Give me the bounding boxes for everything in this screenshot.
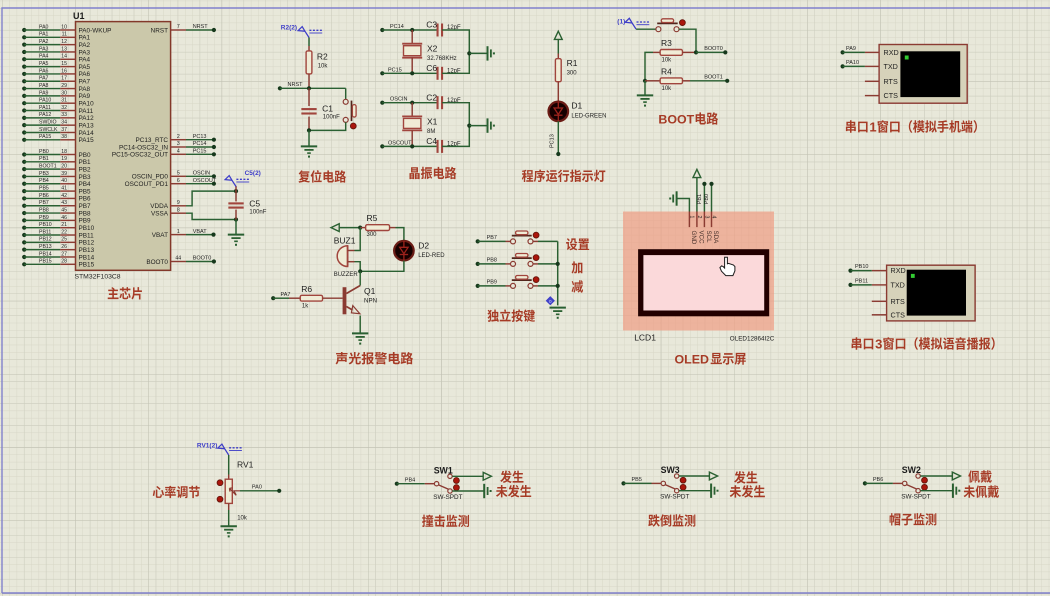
wire net NRST from U1 pin 7 (151, 24, 216, 34)
svg-text:BOOT0: BOOT0 (193, 256, 212, 262)
oled screen (638, 249, 769, 316)
wire probe to RV1 (228, 455, 230, 475)
ground SW1 rotated (483, 484, 485, 498)
potentiometer adjust dot down (217, 496, 223, 502)
buzzer BUZ1 (334, 236, 359, 279)
wire net SWCLK to U1 pin 37 (22, 127, 94, 137)
node junction collector (358, 269, 362, 273)
arrow SW2 top (952, 472, 960, 480)
wire net PA7 to U1 pin 17 (22, 76, 90, 86)
push button red indicator PB8 (533, 255, 539, 261)
svg-text:11: 11 (62, 32, 67, 38)
svg-text:PB6: PB6 (39, 193, 49, 199)
svg-text:RXD: RXD (891, 266, 906, 275)
svg-text:SW-SPDT: SW-SPDT (901, 494, 930, 501)
svg-text:7: 7 (177, 24, 180, 30)
wire net PB11 to terminal3 TXD (848, 279, 871, 288)
svg-text:PB15: PB15 (39, 259, 52, 265)
capacitor C3 12pF (426, 20, 461, 37)
wire oled GND to ground (677, 199, 690, 212)
svg-text:PC13_RTC: PC13_RTC (135, 137, 168, 144)
wire net PA11 to U1 pin 32 (22, 105, 94, 115)
svg-text:PB2: PB2 (79, 166, 92, 173)
svg-text:PB11: PB11 (79, 232, 95, 239)
svg-text:PA0-WKUP: PA0-WKUP (79, 27, 112, 34)
svg-text:43: 43 (61, 200, 67, 206)
svg-text:46: 46 (61, 215, 67, 221)
svg-text:14: 14 (61, 54, 67, 60)
svg-text:PB4: PB4 (79, 181, 92, 188)
svg-text:28: 28 (61, 259, 67, 265)
svg-text:RTS: RTS (891, 297, 905, 306)
switch SW3 SW-SPDT (652, 465, 690, 501)
node junction buzzer top (358, 226, 362, 230)
wire SW3 bottom throw (679, 490, 711, 492)
wire net PB6 (863, 477, 893, 485)
svg-text:31: 31 (61, 98, 67, 104)
svg-text:OSCOUT: OSCOUT (193, 178, 217, 184)
svg-text:0: 0 (549, 299, 552, 304)
svg-text:VBAT: VBAT (193, 229, 208, 235)
svg-text:10: 10 (61, 24, 67, 30)
svg-text:PB8: PB8 (39, 207, 49, 213)
svg-text:X1: X1 (427, 116, 438, 126)
potentiometer RV1 10k (225, 460, 253, 522)
svg-text:C5(2): C5(2) (245, 170, 261, 177)
wire net PB7 to U1 pin 43 (22, 200, 91, 210)
node junction C5 bottom (234, 217, 238, 221)
svg-text:PA6: PA6 (79, 71, 91, 78)
wire net PB1 oled SCL (697, 182, 707, 212)
svg-text:PA7: PA7 (281, 292, 291, 298)
svg-text:PB12: PB12 (39, 237, 52, 243)
svg-text:PA11: PA11 (79, 108, 94, 115)
svg-text:44: 44 (175, 256, 181, 262)
capacitor C1 100nF (301, 88, 340, 130)
ground keys (550, 307, 566, 309)
svg-text:SW-SPDT: SW-SPDT (660, 494, 689, 501)
svg-text:21: 21 (61, 222, 67, 228)
wire D2 to collector rail (360, 261, 404, 272)
switch SW3 red dot A (680, 477, 686, 483)
label 撞击监测 (422, 515, 433, 527)
switch SW1 red dot B (454, 485, 460, 491)
svg-text:PB7: PB7 (39, 200, 49, 206)
svg-text:BUZZER: BUZZER (334, 272, 359, 278)
node junction OSCIN-crystal (410, 101, 414, 105)
svg-text:PA10: PA10 (846, 60, 859, 66)
transistor Q1 NPN (343, 286, 377, 315)
push button key PB8 (506, 254, 558, 267)
wire net PA0 to U1 pin 10 (22, 24, 111, 34)
svg-text:TXD: TXD (891, 281, 905, 290)
svg-text:1: 1 (177, 229, 180, 235)
wire net PB9 to U1 pin 46 (22, 215, 91, 225)
svg-text:PA14: PA14 (79, 130, 95, 137)
svg-text:27: 27 (61, 251, 67, 257)
node junction right rail (467, 124, 471, 128)
svg-text:39: 39 (61, 171, 67, 177)
svg-text:SW1: SW1 (434, 465, 453, 475)
svg-text:5: 5 (177, 171, 180, 177)
node junction NRST-R2-C1 (307, 86, 311, 90)
svg-text:PA12: PA12 (79, 115, 95, 122)
ground SW3 rotated (710, 484, 712, 498)
wire net PB7 (476, 235, 506, 244)
svg-text:RV1: RV1 (237, 460, 254, 470)
svg-text:34: 34 (61, 120, 67, 126)
svg-text:300: 300 (567, 71, 578, 77)
wire net PB8 (476, 257, 506, 266)
ground SW2 rotated (952, 484, 954, 498)
push button red indicator (350, 123, 356, 129)
svg-text:VCC: VCC (698, 231, 705, 245)
label reset circuit (298, 170, 309, 182)
power arrow above R1 (554, 31, 562, 39)
wire C1 to ground (308, 130, 310, 146)
ground oled rotated (676, 191, 678, 205)
svg-text:38: 38 (61, 134, 67, 140)
svg-text:PA3: PA3 (79, 49, 91, 56)
svg-text:20: 20 (61, 164, 67, 170)
svg-text:PA7: PA7 (79, 79, 91, 86)
oled pin 3 SCL (704, 212, 712, 244)
wire SW2 top throw (920, 475, 952, 477)
svg-text:PA8: PA8 (39, 83, 49, 89)
svg-text:8M: 8M (427, 129, 435, 135)
svg-text:PA3: PA3 (39, 46, 49, 52)
push button red indicator PB9 (533, 277, 539, 283)
resistor R4 10k (645, 67, 690, 92)
svg-text:10k: 10k (318, 64, 329, 70)
svg-text:PB10: PB10 (79, 225, 95, 232)
svg-text:C1: C1 (322, 104, 333, 114)
virtual terminal 1 body (879, 45, 967, 104)
svg-text:D2: D2 (418, 241, 429, 251)
svg-text:TXD: TXD (884, 62, 898, 71)
wire R3 left to R4 rail (645, 52, 653, 80)
wire net PA15 to U1 pin 38 (22, 134, 94, 144)
wire net PB6 to U1 pin 42 (22, 193, 91, 203)
svg-text:17: 17 (61, 76, 67, 82)
svg-text:45: 45 (61, 207, 67, 213)
svg-text:SWDIO: SWDIO (39, 120, 57, 126)
crystal X1 8M (402, 103, 437, 147)
wire buzzer top to junction (355, 228, 361, 251)
wire net PB9 (476, 279, 506, 288)
wire net SWDIO to U1 pin 34 (22, 120, 94, 130)
oled LCD1 body (623, 212, 774, 331)
svg-text:PB3: PB3 (79, 174, 92, 181)
svg-text:SWCLK: SWCLK (39, 127, 58, 133)
label 发生 (500, 470, 512, 483)
wire net PA1 to U1 pin 11 (22, 32, 90, 42)
svg-text:2: 2 (696, 216, 702, 219)
svg-text:13: 13 (61, 46, 67, 52)
svg-text:BOOT0: BOOT0 (704, 46, 723, 52)
wire net PC13 from U1 pin 2 (135, 134, 216, 144)
wire net PA10 to U1 pin 31 (22, 98, 94, 108)
svg-text:R6: R6 (301, 284, 312, 294)
svg-text:PA0: PA0 (252, 484, 262, 490)
svg-text:1: 1 (869, 120, 876, 135)
resistor R6 1k (289, 284, 343, 310)
wire net VBAT from U1 pin 1 (152, 229, 216, 239)
svg-text:(1): (1) (617, 19, 625, 26)
svg-text:PC15: PC15 (193, 149, 207, 155)
voltage probe R2(2) (298, 27, 309, 38)
svg-text:C3: C3 (426, 20, 437, 30)
svg-text:8: 8 (177, 207, 180, 213)
svg-text:PA10: PA10 (79, 101, 95, 108)
voltage probe RV1(2) (218, 444, 229, 455)
svg-text:PC15-OSC32_OUT: PC15-OSC32_OUT (112, 152, 168, 159)
svg-text:PA2: PA2 (39, 39, 49, 45)
wire net PB5 (621, 477, 651, 485)
svg-text:OSCIN: OSCIN (193, 171, 210, 177)
svg-text:PC14: PC14 (193, 141, 207, 147)
ground BOOT circuit (637, 94, 653, 96)
label 未发生 (730, 485, 741, 497)
svg-text:4: 4 (177, 149, 180, 155)
svg-text:100nF: 100nF (249, 210, 266, 216)
node junction key bus PB9 (556, 284, 560, 288)
wire net PB10 to terminal3 RXD (848, 264, 871, 273)
wire net PB4 to U1 pin 40 (22, 178, 91, 188)
svg-text:10k: 10k (662, 58, 673, 64)
label 发生 (734, 471, 746, 484)
svg-text:VDDA: VDDA (150, 203, 168, 210)
svg-text:C4: C4 (426, 136, 437, 146)
svg-text:C5: C5 (249, 199, 260, 209)
arrow SW3 top (709, 472, 717, 480)
label 跌倒监测 (648, 514, 660, 526)
potentiometer adjust dot up (217, 480, 223, 486)
svg-text:RXD: RXD (884, 48, 899, 57)
svg-text:BOOT: BOOT (658, 113, 694, 127)
wire RV1 to ground (228, 510, 230, 526)
svg-text:PA5: PA5 (79, 64, 91, 71)
potentiometer wiper arrow (229, 488, 240, 495)
svg-text:PB9: PB9 (39, 215, 49, 221)
wire net PC13 below D1 (550, 121, 561, 156)
switch SW1 SW-SPDT (425, 465, 463, 501)
wire net PB10 to U1 pin 21 (22, 222, 94, 232)
svg-text:PA9: PA9 (39, 90, 49, 96)
label OLED display (675, 353, 746, 367)
svg-text:2: 2 (177, 134, 180, 140)
wire net PA2 to U1 pin 12 (22, 39, 90, 49)
wire key bus (557, 241, 559, 305)
wire net PB12 to U1 pin 25 (22, 237, 94, 247)
svg-text:37: 37 (61, 127, 67, 133)
svg-text:PB0: PB0 (79, 152, 92, 159)
svg-text:PA7: PA7 (39, 76, 49, 82)
label BOOT circuit (658, 112, 718, 126)
label main chip (108, 287, 119, 299)
svg-text:3: 3 (177, 141, 180, 147)
ground RV1 (221, 525, 237, 527)
crystal X2 32.768KHz (402, 30, 456, 73)
push button red indicator PB7 (533, 232, 539, 238)
wire net BOOT0 from U1 pin 44 (146, 256, 216, 266)
svg-text:PB4: PB4 (405, 478, 415, 484)
svg-text:OSCOUT: OSCOUT (388, 140, 412, 146)
wire net PA10 to terminal1 TXD (841, 60, 865, 69)
svg-text:6: 6 (177, 178, 180, 184)
mouse cursor on oled (720, 257, 735, 275)
svg-text:BOOT0: BOOT0 (146, 259, 168, 266)
wire emitter to ground (359, 316, 361, 334)
svg-text:100nF: 100nF (323, 115, 340, 121)
wire net PA9 to U1 pin 30 (22, 90, 90, 100)
voltage probe (1) (625, 18, 636, 29)
wire power to R1 (557, 39, 559, 53)
svg-text:PB10: PB10 (855, 264, 868, 270)
wire net PA8 to U1 pin 29 (22, 83, 90, 93)
wire net PB13 to U1 pin 26 (22, 244, 94, 254)
svg-text:OSCIN_PD0: OSCIN_PD0 (132, 174, 169, 181)
svg-text:SW2: SW2 (902, 465, 921, 475)
wire net PA7 (271, 292, 290, 301)
wire R5 to D2 (396, 228, 404, 241)
label 未发生 (496, 485, 507, 497)
svg-text:PB10: PB10 (39, 222, 52, 228)
svg-text:PB11: PB11 (855, 279, 868, 285)
push button key PB7 (506, 231, 558, 244)
svg-text:42: 42 (61, 193, 67, 199)
svg-text:41: 41 (61, 186, 67, 192)
power arrow buzzer rail (331, 224, 339, 232)
wire SW1 top throw (452, 475, 483, 477)
svg-text:NPN: NPN (364, 297, 377, 304)
node junction key bus PB8 (556, 262, 560, 266)
svg-text:Q1: Q1 (364, 286, 376, 296)
svg-text:PA6: PA6 (39, 68, 49, 74)
wire VSSA U1 pin 8 to C5 (151, 207, 236, 219)
wire net PB5 to U1 pin 41 (22, 186, 91, 196)
svg-text:GND: GND (690, 231, 697, 245)
wire SW1 bottom throw (452, 490, 484, 492)
svg-text:PB6: PB6 (873, 477, 883, 483)
svg-text:1: 1 (689, 216, 695, 219)
label serial port 3 (852, 337, 995, 352)
node junction OSCOUT-crystal (410, 144, 414, 148)
svg-text:PB5: PB5 (632, 477, 642, 483)
switch SW2 SW-SPDT (893, 465, 931, 501)
label set plus minus (566, 238, 577, 250)
svg-text:SCL: SCL (705, 231, 712, 244)
svg-text:300: 300 (367, 232, 378, 238)
label serial port 1 (846, 120, 977, 135)
wire net OSCIN from U1 pin 5 (132, 171, 216, 181)
svg-text:OLED: OLED (675, 353, 709, 367)
wire C6 to right rail (442, 53, 469, 73)
oled pin 4 SDA (711, 212, 719, 245)
svg-text:PB1: PB1 (79, 159, 92, 166)
svg-text:PA1: PA1 (39, 32, 49, 38)
capacitor C2 12pF (426, 92, 461, 109)
wire net PB3 to U1 pin 39 (22, 171, 91, 181)
svg-text:VSSA: VSSA (151, 211, 169, 218)
probe diamond keys (546, 297, 554, 305)
svg-text:C2: C2 (426, 92, 437, 102)
svg-text:1k: 1k (302, 304, 309, 310)
svg-text:PB7: PB7 (487, 235, 497, 241)
svg-text:PB5: PB5 (39, 186, 49, 192)
wire net OSCOUT from U1 pin 6 (125, 178, 217, 188)
svg-text:PA12: PA12 (39, 112, 51, 118)
resistor R2 10k (306, 46, 328, 88)
capacitor C4 12pF (426, 136, 461, 153)
svg-text:LCD1: LCD1 (634, 333, 656, 343)
svg-text:BUZ1: BUZ1 (334, 236, 356, 246)
svg-text:STM32F103C8: STM32F103C8 (75, 273, 121, 280)
svg-text:3: 3 (875, 337, 882, 352)
svg-text:CTS: CTS (891, 310, 906, 319)
ground emitter (352, 332, 368, 334)
svg-text:16: 16 (61, 68, 67, 74)
wire net PA12 to U1 pin 33 (22, 112, 94, 122)
svg-text:32: 32 (61, 105, 67, 111)
wire button to BOOT0 rail (679, 29, 696, 52)
ground below C1 (301, 145, 317, 147)
ground rotated (487, 46, 489, 60)
wire rail to ground (469, 125, 487, 127)
svg-text:29: 29 (61, 83, 67, 89)
svg-text:19: 19 (61, 156, 67, 162)
label crystal circuit (409, 167, 419, 179)
svg-text:18: 18 (61, 149, 67, 155)
ground below C5 (228, 234, 244, 236)
wire net PC15 (380, 67, 437, 75)
svg-text:PB9: PB9 (79, 218, 92, 225)
power arrow oled (693, 169, 701, 177)
svg-text:R2(2): R2(2) (281, 25, 297, 32)
svg-text:PC13: PC13 (193, 134, 207, 140)
arrow SW1 top (483, 472, 491, 480)
svg-text:LED-GREEN: LED-GREEN (571, 114, 606, 120)
node junction PC15-crystal (410, 71, 414, 75)
svg-text:PC14: PC14 (390, 24, 404, 30)
wire net PB14 to U1 pin 27 (22, 251, 94, 261)
svg-text:SW3: SW3 (661, 465, 680, 475)
wire net PB1 to U1 pin 19 (22, 156, 91, 166)
svg-text:D1: D1 (571, 101, 582, 111)
svg-text:CTS: CTS (884, 91, 899, 100)
svg-text:PB9: PB9 (487, 279, 497, 285)
svg-text:30: 30 (61, 90, 67, 96)
svg-text:3: 3 (704, 216, 710, 219)
svg-text:PB1: PB1 (39, 156, 49, 162)
node junction BOOT0 (694, 50, 698, 54)
push button reset (309, 88, 356, 130)
svg-text:PA9: PA9 (79, 93, 91, 100)
switch SW1 red dot A (454, 478, 460, 484)
wire net NRST rail (278, 82, 346, 90)
wire rail to ground (469, 52, 487, 54)
svg-text:PB13: PB13 (39, 244, 52, 250)
wire net PA9 to terminal1 RXD (841, 46, 865, 55)
svg-text:PA1: PA1 (79, 35, 91, 42)
svg-text:U1: U1 (73, 11, 85, 21)
wire SW2 bottom throw (920, 490, 953, 492)
resistor R5 300 (360, 213, 395, 238)
svg-text:40: 40 (61, 178, 67, 184)
svg-text:NRST: NRST (193, 24, 209, 30)
node junction PC14-crystal (410, 28, 414, 32)
svg-text:PA9: PA9 (846, 46, 856, 52)
